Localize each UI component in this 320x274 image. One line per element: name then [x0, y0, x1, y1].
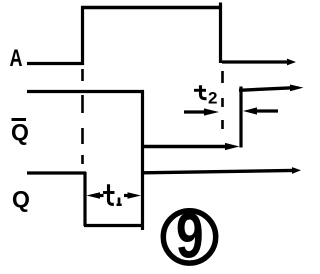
wire: A high level	[81, 6, 222, 10]
wire: A low level before pulse	[27, 62, 83, 65]
wire: Q-bar low level with arrow	[142, 143, 240, 150]
wire: Q low level	[84, 224, 144, 227]
wire: Q-bar falling edge / Q rising edge shared vertical	[141, 90, 144, 230]
svg-text:Q: Q	[11, 119, 29, 145]
dashed timing line at A rising edge	[81, 69, 84, 170]
dashed timing line at A falling edge	[221, 71, 224, 130]
wire: Q-bar high level after pulse with arrow	[239, 85, 304, 92]
svg-text:9: 9	[176, 201, 204, 272]
svg-text:2: 2	[208, 89, 217, 108]
wire: Q-bar high level before pulse	[27, 90, 144, 93]
t1 dimension arrow pointing left	[87, 192, 104, 199]
label t1	[103, 184, 122, 205]
label t2	[194, 85, 217, 107]
wire: Q high level before pulse	[27, 171, 86, 174]
figure number circle	[163, 211, 215, 263]
t1 dimension arrow pointing right	[124, 192, 141, 199]
t2 dimension arrow pointing right	[184, 108, 219, 115]
wire: Q high level after pulse	[143, 167, 301, 174]
wire: A low level after pulse	[222, 59, 296, 66]
signal label Q-bar	[11, 119, 29, 145]
wire: Q falling edge	[83, 172, 86, 226]
wire: Q-bar rising edge	[239, 87, 242, 148]
svg-text:A: A	[10, 46, 23, 72]
dimension arrow pointing left into Q-bar rising edge	[243, 107, 278, 114]
wire: A rising edge	[81, 7, 84, 66]
svg-text:Q: Q	[12, 186, 30, 212]
wire: A falling edge	[219, 3, 222, 64]
